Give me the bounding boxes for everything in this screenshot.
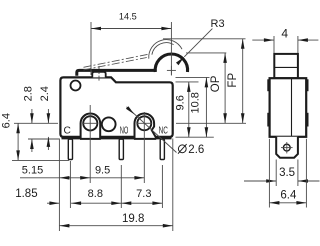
side view button — [274, 54, 298, 78]
body bottom extension line — [176, 136, 214, 138]
side view hole — [283, 144, 290, 151]
centerline C hole — [83, 122, 98, 124]
phantom curl inner arc — [152, 43, 174, 55]
dimension FP — [242, 39, 244, 124]
svg-text:6.4: 6.4 — [280, 189, 297, 201]
dimension 7.3 — [121, 202, 162, 204]
pin tip extension left — [12, 159, 69, 161]
extension line body right — [172, 139, 174, 232]
dimension 2.8 — [31, 109, 33, 123]
svg-text:6.4: 6.4 — [1, 113, 13, 128]
centerline NC hole — [137, 122, 152, 124]
terminal hole C — [83, 116, 97, 130]
dimension 5.15 — [20, 177, 144, 179]
side view body — [270, 78, 307, 137]
label Phi 2.6 — [178, 145, 186, 153]
side view button step line — [274, 66, 298, 68]
svg-text:FP: FP — [227, 73, 239, 88]
switch body outline (front view) — [60, 77, 172, 136]
tab bottom extension left — [28, 138, 59, 140]
lever curl (R3) — [155, 54, 187, 72]
svg-text:7.3: 7.3 — [136, 188, 151, 200]
terminal pin NO — [119, 139, 123, 159]
side view panel line — [291, 78, 293, 137]
svg-text:1.85: 1.85 — [15, 188, 37, 200]
extension line body left — [58, 139, 60, 232]
svg-text:R3: R3 — [211, 18, 225, 30]
svg-text:5.15: 5.15 — [22, 164, 43, 176]
terminal pin NC — [160, 139, 164, 159]
plunger centerline — [98, 66, 100, 81]
dimension leader Phi 2.6 — [127, 107, 177, 153]
terminal pin C — [68, 139, 72, 159]
OP operating position line — [186, 52, 226, 54]
phantom curl outer arc — [149, 40, 182, 59]
svg-text:C: C — [64, 126, 71, 137]
svg-text:9.6: 9.6 — [175, 95, 187, 110]
tab bottom edges — [80, 138, 101, 140]
svg-text:3.5: 3.5 — [279, 167, 295, 179]
dimension 8.8 — [71, 202, 121, 204]
terminal hole NC — [137, 116, 151, 130]
left side centerline extension — [14, 122, 58, 124]
side view latches — [267, 79, 269, 91]
dimension 9.5 — [134, 176, 144, 180]
svg-text:8.8: 8.8 — [88, 188, 103, 200]
svg-text:2.6: 2.6 — [188, 144, 204, 156]
hole centerline extension right — [176, 122, 246, 124]
svg-text:2.8: 2.8 — [23, 86, 35, 101]
lever free-position phantom lines — [84, 54, 148, 67]
dimension 14.5 — [90, 22, 92, 75]
dimension 2.4 — [47, 109, 49, 123]
body top extension lines — [176, 76, 210, 78]
svg-text:14.5: 14.5 — [119, 12, 137, 22]
extension line pin NC — [161, 165, 163, 208]
body bottom edge (thick) — [62, 136, 172, 139]
dimension 9.6 — [188, 82, 190, 137]
terminal NC tab — [135, 114, 156, 139]
plunger — [92, 72, 105, 78]
dimension 3.5 — [275, 160, 277, 187]
dimension 6.4 right — [268, 139, 270, 208]
dimension 4 — [273, 36, 275, 53]
svg-text:NC: NC — [159, 126, 168, 137]
extension line pin C — [69, 161, 71, 208]
terminal C tab — [81, 114, 101, 139]
curl center cross — [167, 69, 176, 71]
lever arm — [77, 70, 156, 75]
svg-text:9.5: 9.5 — [95, 164, 110, 176]
dimension OP — [224, 53, 226, 123]
mounting hole — [71, 81, 81, 91]
dimension 6.4 left — [17, 123, 19, 160]
terminal hole NO (middle) — [102, 117, 116, 131]
side view bottom boss — [276, 137, 298, 158]
extension line pin NO — [120, 165, 122, 208]
svg-text:19.8: 19.8 — [122, 213, 144, 225]
svg-text:4: 4 — [281, 27, 288, 41]
FP free position line — [163, 38, 246, 40]
svg-text:OP: OP — [210, 75, 222, 92]
dimension 10.8 — [205, 77, 207, 137]
dimension 1.85 — [47, 202, 59, 204]
dimension 19.8 — [59, 225, 172, 227]
svg-text:10.8: 10.8 — [189, 92, 201, 113]
svg-text:NO: NO — [120, 126, 129, 137]
svg-text:2.4: 2.4 — [39, 86, 51, 101]
